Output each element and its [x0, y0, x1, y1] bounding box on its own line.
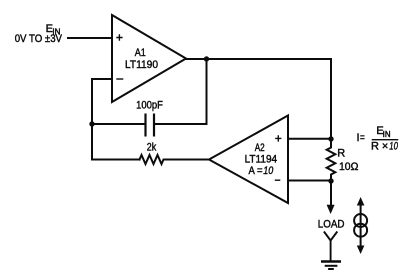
svg-text:10: 10 [389, 140, 398, 152]
svg-text:10: 10 [263, 165, 274, 177]
svg-text:A1: A1 [135, 47, 146, 59]
svg-text:100pF: 100pF [136, 100, 163, 112]
svg-text:R: R [371, 140, 379, 152]
svg-text:=: = [360, 132, 365, 144]
svg-text:0V TO ±3V: 0V TO ±3V [15, 33, 63, 45]
svg-text:A2: A2 [255, 142, 265, 154]
svg-text:2k: 2k [147, 142, 157, 154]
svg-text:LOAD: LOAD [318, 218, 345, 230]
svg-text:LT1190: LT1190 [125, 59, 158, 71]
svg-text:R: R [337, 148, 345, 160]
svg-text:A =: A = [249, 165, 263, 177]
svg-text:10Ω: 10Ω [339, 161, 358, 173]
svg-text:LT1194: LT1194 [245, 154, 278, 166]
svg-text:×: × [382, 140, 388, 152]
svg-text:IN: IN [383, 130, 391, 139]
